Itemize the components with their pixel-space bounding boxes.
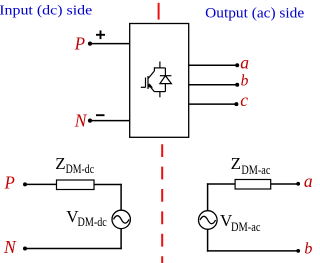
top bar [154,67,165,69]
svg-text:N: N [74,111,88,131]
sine wave [114,216,130,223]
body bar [147,76,149,89]
wire corner down to source [120,184,122,211]
svg-text:N: N [3,237,17,257]
diode triangle [160,76,172,84]
impedance Z_DM-dc box [57,180,95,190]
svg-text:b: b [241,72,249,89]
svg-text:DM-dc: DM-dc [78,215,108,229]
svg-text:DM-dc: DM-dc [66,162,95,176]
emitter diagonal [148,84,154,92]
terminal dot N [88,119,92,123]
svg-text:a: a [240,52,249,72]
svg-text:b: b [304,240,312,257]
terminal dot N2 [23,247,27,251]
IGBT Q1 with antiparallel diode D1 inside box [141,62,172,98]
terminal dot c [234,102,238,106]
terminal dot a2 [296,182,300,186]
wire corner to impedance [207,183,235,185]
diode cathode bar [160,75,172,77]
emitter stub [159,92,161,98]
diode branch top [164,68,166,76]
terminal dot P [88,42,92,46]
terminal dot b [235,83,239,87]
wire source to bottom corner [207,229,209,251]
wire box to a [189,64,237,66]
emitter arrowhead [148,83,153,87]
impedance Z_DM-ac box [235,180,271,190]
bottom wire to b [207,250,298,252]
bottom wire to N [25,248,122,250]
svg-text:Output (ac) side: Output (ac) side [205,4,304,21]
wire box to c [189,103,237,105]
ac source V_DM-ac [199,211,218,230]
svg-text:P: P [4,173,15,193]
bottom bar [154,91,165,93]
gate bar [145,78,147,88]
sine wave [200,216,216,223]
left vertical [153,67,155,71]
wire P to box [90,43,130,45]
collector diagonal [148,71,155,79]
wire box to b [189,84,237,86]
wire impedance to a [271,183,298,185]
minus sign [96,114,105,116]
collector stub [159,62,161,68]
svg-text:Z: Z [231,154,241,173]
converter box U1 [130,24,189,138]
gate lead [141,86,146,88]
dashed separator line (bottom segment) [161,144,163,263]
svg-text:DM-ac: DM-ac [241,163,270,177]
svg-text:c: c [240,90,248,110]
terminal dot P2 [23,182,27,186]
plus sign [96,30,105,39]
svg-text:P: P [74,33,86,53]
terminal dot b2 [296,249,300,253]
dashed separator line (top dash) [158,3,160,20]
wire N to box [90,120,130,122]
wire P to impedance [25,183,57,185]
terminal dot a [235,63,239,67]
svg-text:DM-ac: DM-ac [231,220,261,234]
svg-text:Z: Z [55,154,65,173]
diode branch bottom [164,84,166,92]
wire corner down to source [207,183,209,210]
wire impedance to corner [94,184,122,186]
ac source V_DM-dc [112,210,130,228]
svg-text:a: a [304,171,312,191]
svg-text:Input (dc) side: Input (dc) side [0,3,92,18]
wire source to bottom corner [120,229,122,250]
